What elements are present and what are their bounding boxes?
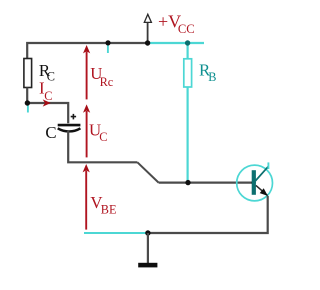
- capacitor plus sign: [71, 114, 76, 120]
- ground stem: [147, 233, 149, 263]
- junction dot at VCC node: [145, 40, 150, 45]
- collector cyan stub: [267, 162, 269, 169]
- junction dot (teal) at RB top: [185, 40, 190, 45]
- svg-text:B: B: [208, 70, 216, 84]
- transistor Q1 circle: [237, 165, 273, 201]
- junction dot at URc node: [105, 40, 110, 45]
- ground bar: [138, 263, 157, 268]
- svg-text:BE: BE: [101, 202, 117, 216]
- voltage arrow URc: [83, 45, 90, 99]
- wire: power stem: [147, 23, 149, 43]
- wire: base rail: [159, 182, 252, 184]
- voltage arrow VBE: [83, 164, 90, 230]
- label IC: [39, 79, 53, 103]
- transistor emitter lead: [256, 185, 268, 195]
- emitter arrowhead: [260, 188, 268, 196]
- base contact dot: [251, 180, 255, 184]
- junction dot at base node: [185, 180, 190, 185]
- svg-text:C: C: [99, 130, 107, 144]
- label VBE: [90, 193, 116, 216]
- cyan tick below collector node: [27, 106, 29, 113]
- wire: emitter to bottom rail: [148, 196, 268, 233]
- wire: capacitor to bend: [68, 131, 137, 163]
- capacitor C top plate: [58, 124, 81, 127]
- transistor collector lead: [255, 166, 268, 181]
- junction dot at ground node: [145, 230, 150, 235]
- wire: diagonal to base rail: [137, 162, 158, 182]
- voltage arrow UC: [83, 104, 90, 157]
- wire: collector node to capacitor: [27, 103, 68, 123]
- wire: bottom cyan: [84, 232, 148, 234]
- current arrow IC: [43, 99, 51, 106]
- resistor RC: [24, 59, 32, 88]
- svg-text:CC: CC: [178, 22, 195, 36]
- svg-text:C: C: [44, 89, 52, 103]
- wire: below RC: [26, 88, 28, 104]
- resistor RB: [184, 59, 192, 87]
- svg-text:C: C: [45, 123, 56, 142]
- power arrow (open triangle): [144, 14, 151, 22]
- cyan tick below URc node: [107, 45, 109, 54]
- label RB: [199, 60, 216, 83]
- label +VCC: [158, 11, 195, 35]
- junction dot at collector node: [25, 100, 30, 105]
- wire: top rail left with RC drop: [27, 43, 147, 59]
- svg-text:C: C: [47, 70, 55, 84]
- label URc: [90, 64, 114, 89]
- wire: RB bottom lead: [187, 87, 189, 182]
- capacitor C bottom plate (curved): [58, 128, 81, 131]
- transistor base bar: [252, 170, 256, 195]
- wire: RB top lead: [187, 43, 189, 59]
- svg-text:Rc: Rc: [100, 75, 114, 89]
- label RC: [39, 61, 55, 84]
- wire: top rail cyan: [148, 42, 204, 44]
- label UC: [89, 121, 108, 144]
